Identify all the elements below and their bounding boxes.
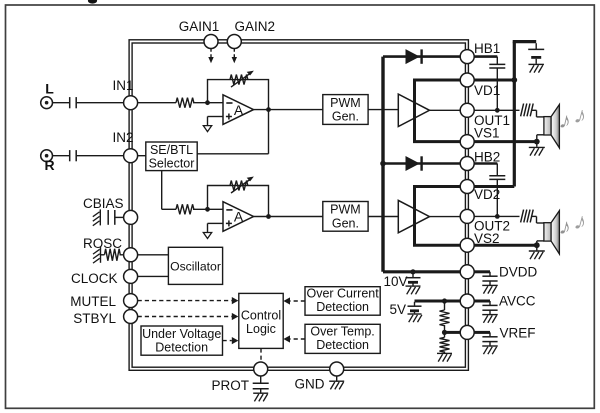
svg-text:HB2: HB2 — [474, 149, 500, 164]
svg-text:Oscillator: Oscillator — [170, 259, 221, 273]
svg-text:VD2: VD2 — [474, 187, 500, 202]
svg-text:GAIN2: GAIN2 — [235, 19, 276, 34]
svg-text:Selector: Selector — [149, 156, 195, 170]
svg-text:CBIAS: CBIAS — [83, 196, 124, 211]
svg-text:Detection: Detection — [316, 338, 369, 352]
svg-text:VS2: VS2 — [474, 231, 500, 246]
svg-text:GND: GND — [295, 377, 325, 392]
svg-text:R: R — [44, 157, 54, 173]
svg-text:Logic: Logic — [246, 322, 276, 336]
svg-text:A: A — [234, 209, 244, 225]
svg-text:VS1: VS1 — [474, 126, 500, 141]
svg-text:PWM: PWM — [330, 96, 361, 110]
svg-text:VREF: VREF — [500, 325, 536, 340]
svg-text:Gen.: Gen. — [332, 110, 359, 124]
svg-text:5V: 5V — [389, 302, 406, 317]
svg-text:IN1: IN1 — [112, 78, 133, 93]
svg-text:Over Temp.: Over Temp. — [310, 325, 374, 339]
svg-text:HB1: HB1 — [474, 41, 500, 56]
svg-text:STBYL: STBYL — [73, 311, 116, 326]
svg-text:A: A — [234, 102, 244, 118]
svg-text:Over Current: Over Current — [306, 287, 379, 301]
svg-text:10V: 10V — [383, 274, 407, 289]
svg-text:IN2: IN2 — [112, 130, 133, 145]
svg-text:ROSC: ROSC — [83, 236, 122, 251]
svg-text:AVCC: AVCC — [499, 294, 536, 309]
svg-text:MUTEL: MUTEL — [70, 294, 116, 309]
svg-text:L: L — [45, 80, 54, 96]
svg-text:Detection: Detection — [316, 300, 369, 314]
svg-text:CLOCK: CLOCK — [71, 271, 118, 286]
svg-text:Under Voltage: Under Voltage — [142, 327, 221, 341]
svg-text:PWM: PWM — [330, 203, 361, 217]
svg-text:Detection: Detection — [155, 341, 208, 355]
svg-text:Control: Control — [241, 308, 281, 322]
svg-text:VD1: VD1 — [474, 83, 500, 98]
svg-text:GAIN1: GAIN1 — [179, 19, 220, 34]
svg-text:SE/BTL: SE/BTL — [150, 143, 193, 157]
svg-text:PROT: PROT — [211, 378, 249, 393]
svg-text:DVDD: DVDD — [499, 264, 538, 279]
svg-text:Gen.: Gen. — [332, 216, 359, 230]
